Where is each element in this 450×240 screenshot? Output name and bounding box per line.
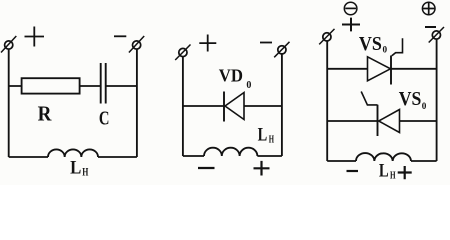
svg-text:VD: VD: [219, 65, 243, 85]
svg-text:H: H: [269, 134, 274, 145]
svg-text:L: L: [258, 124, 268, 145]
svg-text:0: 0: [246, 79, 251, 91]
svg-text:C: C: [99, 107, 110, 129]
svg-text:VS: VS: [399, 88, 422, 110]
svg-text:VS: VS: [359, 34, 382, 55]
svg-text:H: H: [390, 171, 396, 182]
svg-text:H: H: [82, 167, 88, 179]
svg-text:L: L: [379, 161, 389, 181]
svg-text:L: L: [70, 159, 81, 179]
svg-text:0: 0: [383, 44, 388, 54]
svg-text:0: 0: [422, 101, 427, 111]
svg-text:R: R: [38, 102, 52, 126]
